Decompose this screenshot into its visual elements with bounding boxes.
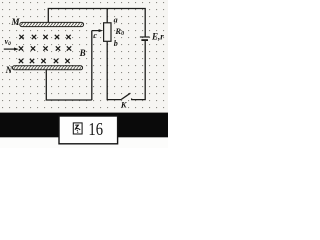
battery E,r : long plate	[140, 36, 150, 38]
svg-text:E,r: E,r	[151, 31, 164, 41]
velocity arrow	[4, 48, 19, 51]
wire switch to battery bottom	[132, 41, 145, 100]
bottom white strip	[0, 137, 168, 148]
hanzi tu (图) drawn glyph	[73, 123, 82, 134]
svg-text:16: 16	[88, 119, 103, 139]
field cross row 1	[19, 35, 70, 39]
switch contact	[131, 98, 133, 100]
svg-text:b: b	[114, 39, 118, 48]
switch K blade	[121, 93, 130, 99]
slider arrow c	[92, 29, 103, 32]
background scan texture	[0, 0, 168, 113]
rheostat R0	[104, 23, 111, 42]
svg-text:M: M	[11, 17, 21, 27]
wire slider riser	[91, 31, 93, 100]
battery short thick plate	[141, 39, 148, 41]
svg-text:N: N	[5, 65, 13, 75]
svg-text:a: a	[114, 16, 118, 25]
field cross row 2	[19, 46, 71, 50]
svg-text:B: B	[79, 48, 86, 58]
plate M	[20, 22, 84, 26]
wire N-plate drop and bottom-left run	[46, 69, 92, 100]
plate N	[12, 66, 82, 70]
wire top rail	[48, 9, 145, 37]
svg-text:c: c	[93, 31, 97, 40]
wire rheostat stem top	[106, 9, 108, 23]
wire rheostat bottom drop and bottom-mid run	[107, 41, 121, 99]
bottom black band	[0, 113, 168, 138]
figure label box	[59, 116, 118, 144]
field cross row 3	[19, 59, 70, 63]
